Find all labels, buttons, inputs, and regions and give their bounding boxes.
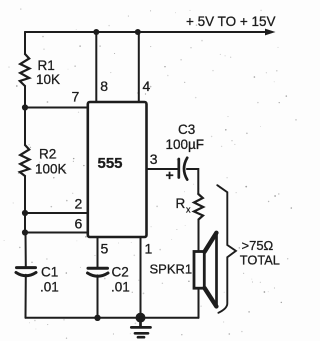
node junction pin4 on rail [135, 29, 141, 35]
wire Rx to speaker [198, 220, 200, 252]
svg-text:100K: 100K [35, 162, 67, 177]
svg-text:2: 2 [75, 196, 83, 212]
node junction C2/rail [94, 315, 100, 321]
supply arrowhead [265, 29, 276, 36]
svg-text:10K: 10K [36, 72, 60, 87]
wire pin 3 [147, 168, 179, 170]
svg-text:555: 555 [98, 155, 123, 172]
wire node to C1 [25, 233, 27, 268]
svg-text:TOTAL: TOTAL [240, 253, 280, 268]
svg-text:8: 8 [100, 78, 108, 94]
wire C2 to bottom rail [97, 275, 99, 317]
wire R2 to node pin2 [24, 176, 26, 213]
svg-text:x: x [186, 205, 191, 215]
svg-text:.01: .01 [111, 280, 130, 295]
svg-text:.01: .01 [40, 280, 59, 295]
wire pin 6 [25, 232, 88, 234]
resistor Rx [194, 194, 203, 220]
ground [131, 318, 150, 338]
node junction R2/pin2 [22, 210, 28, 216]
svg-text:3: 3 [150, 151, 158, 167]
wire speaker to bottom rail [198, 288, 200, 318]
svg-text:+ 5V TO + 15V: + 5V TO + 15V [186, 14, 276, 29]
resistor R2 [20, 145, 30, 176]
svg-text:7: 7 [72, 89, 80, 105]
node junction ground [136, 313, 146, 323]
wire pin 1 [140, 237, 142, 318]
brace total impedance [217, 185, 236, 313]
node junction pin8 on rail [93, 29, 99, 35]
node junction R1/R2/pin7 [22, 104, 28, 110]
node junction pin6 [22, 229, 28, 235]
svg-text:C3: C3 [178, 122, 195, 137]
svg-text:C2: C2 [112, 265, 129, 280]
op-amp 555 IC U1 [88, 102, 147, 237]
speaker SPKR1 [194, 232, 217, 307]
capacitor C2 [88, 268, 109, 276]
svg-text:C1: C1 [41, 265, 58, 280]
svg-text:+: + [166, 167, 174, 183]
svg-text:R2: R2 [39, 147, 56, 162]
svg-text:R: R [176, 196, 186, 211]
wire pin 2 [25, 212, 88, 214]
wire node to node pin6 [24, 213, 26, 233]
capacitor C1 [16, 268, 36, 276]
svg-text:1: 1 [145, 241, 153, 257]
svg-text:5: 5 [101, 241, 109, 257]
wire C3 to corner [187, 169, 198, 194]
wire left rail upper [24, 32, 26, 54]
wire R1 to node [24, 86, 26, 108]
wire node to R2 [24, 108, 26, 146]
wire pin 7 [25, 107, 88, 109]
svg-text:4: 4 [143, 78, 151, 94]
wire pin 8 [95, 32, 97, 102]
svg-text:R1: R1 [38, 58, 55, 73]
svg-text:>75Ω: >75Ω [242, 238, 274, 253]
wire pin 5 [97, 237, 99, 268]
svg-text:SPKR1: SPKR1 [150, 261, 193, 276]
wire C1 to bottom rail [25, 275, 27, 318]
resistor R1 [20, 54, 30, 86]
wire pin 4 [138, 32, 140, 102]
svg-text:6: 6 [75, 216, 83, 232]
wire top supply rail [25, 31, 267, 33]
wire bottom ground rail [26, 317, 199, 319]
capacitor C3 [179, 158, 187, 180]
svg-text:100µF: 100µF [166, 137, 205, 152]
